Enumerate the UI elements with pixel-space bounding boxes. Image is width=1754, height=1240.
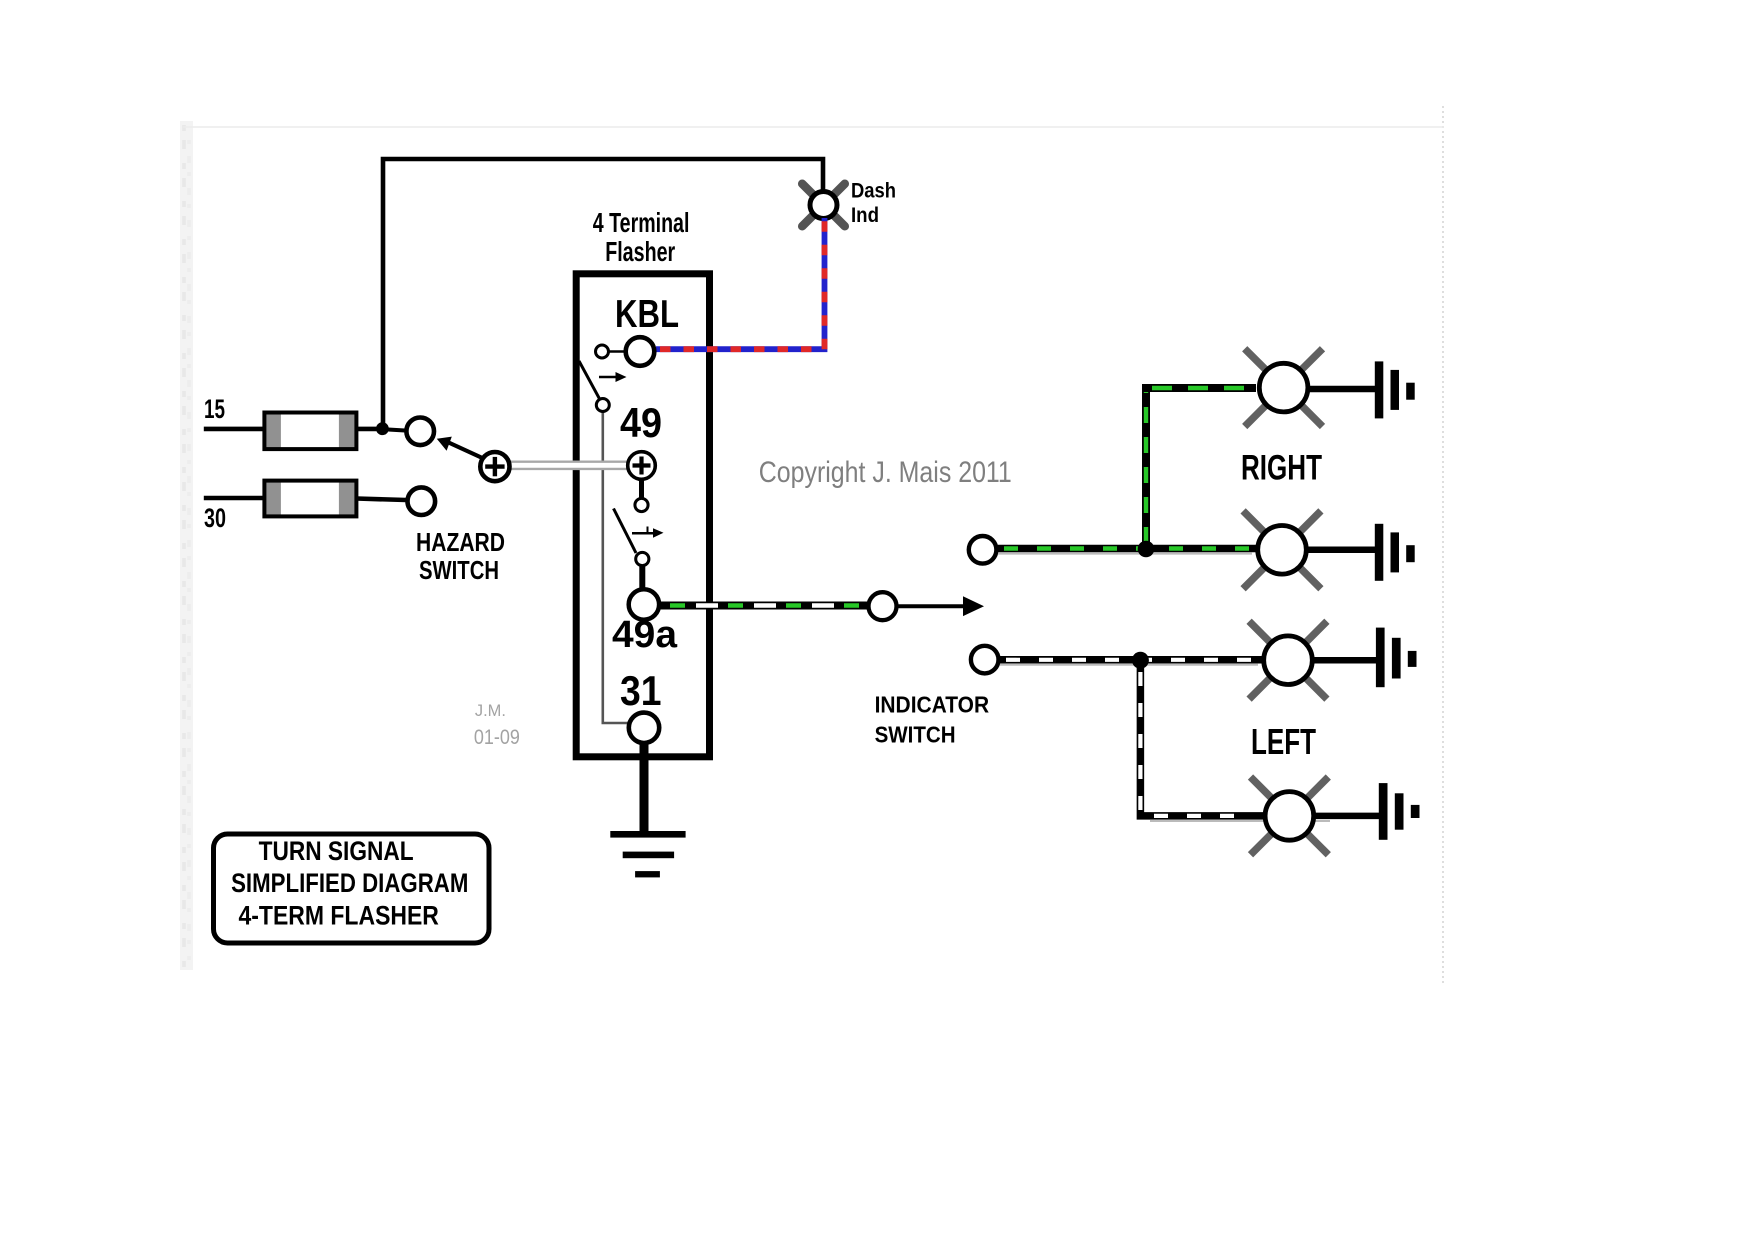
svg-text:LEFT: LEFT [1251, 721, 1316, 762]
svg-text:SWITCH: SWITCH [419, 555, 499, 585]
svg-text:49a: 49a [612, 614, 678, 656]
svg-text:INDICATOR: INDICATOR [875, 691, 990, 717]
svg-text:01-09: 01-09 [474, 725, 520, 749]
hazard switch moving contact circled plus [480, 452, 509, 481]
wire fuse to contact [356, 499, 406, 501]
scan edge texture strip [180, 121, 193, 970]
svg-text:49: 49 [620, 399, 662, 446]
lamp right top [1245, 349, 1323, 427]
svg-text:15: 15 [204, 394, 225, 424]
indicator switch arrow [897, 604, 963, 608]
title box [214, 834, 490, 943]
fuse F2 [264, 481, 356, 517]
hazard switch fixed contact (top) [406, 418, 434, 446]
hazard switch arm with arrow [448, 442, 491, 462]
faint page border top [183, 126, 1444, 128]
relay switch contact (upper) [596, 345, 609, 358]
wire 31 to ground [640, 742, 649, 834]
wire 15 [204, 427, 265, 432]
lamp right bottom [1243, 511, 1321, 589]
wire 49a to indicator switch (black w/ green+white dashes) [659, 602, 868, 610]
svg-text:Dash: Dash [851, 180, 896, 203]
terminal 31 [629, 713, 659, 743]
terminal 49 circled plus [628, 452, 656, 480]
svg-text:4 Terminal: 4 Terminal [593, 207, 690, 238]
node right feed [969, 536, 997, 564]
ground [610, 831, 685, 877]
svg-text:HAZARD: HAZARD [416, 527, 505, 557]
wire KBL to dash ind (blue/red striped) [656, 218, 825, 349]
junction node [376, 422, 389, 435]
ground right top [1375, 361, 1415, 418]
svg-text:30: 30 [204, 503, 226, 533]
wire left vertical+bottom [1140, 660, 1263, 816]
wire right vertical+top [1146, 388, 1256, 552]
svg-text:J.M.: J.M. [475, 702, 506, 720]
lamp left top [1249, 621, 1327, 699]
wire fuse to junction [356, 427, 382, 432]
wire lamp to ground [1306, 386, 1376, 393]
wire junction to hazard switch [388, 430, 405, 431]
indicator switch contact [869, 592, 897, 620]
junction node right [1138, 541, 1155, 558]
terminal KBL [608, 350, 626, 353]
flasher box [576, 274, 709, 757]
svg-text:TURN SIGNAL: TURN SIGNAL [259, 836, 414, 866]
lamp dash indicator [802, 184, 845, 227]
node left feed [971, 646, 999, 674]
svg-text:4-TERM FLASHER: 4-TERM FLASHER [239, 901, 439, 931]
faint page border dotted right [1442, 106, 1444, 985]
ground left bottom [1379, 783, 1420, 840]
svg-text:RIGHT: RIGHT [1241, 449, 1322, 488]
fuse F1 [264, 413, 356, 450]
wire 30 [204, 496, 265, 501]
svg-text:31: 31 [620, 667, 662, 714]
svg-text:Copyright J. Mais 2011: Copyright J. Mais 2011 [759, 456, 1012, 489]
lamp left bottom [1251, 777, 1329, 855]
svg-text:SWITCH: SWITCH [875, 721, 956, 747]
junction node left [1132, 652, 1149, 669]
svg-text:Flasher: Flasher [605, 236, 675, 267]
svg-text:SIMPLIFIED DIAGRAM: SIMPLIFIED DIAGRAM [231, 868, 468, 898]
svg-text:Ind: Ind [851, 204, 879, 227]
svg-text:KBL: KBL [615, 293, 679, 336]
internal gray wire from relay contact to 31 [603, 412, 628, 723]
relay switch (lower) [639, 480, 644, 499]
ground left top [1376, 628, 1417, 688]
hazard switch fixed contact (bottom) [408, 487, 436, 515]
wire right feed (black w/ green dashes) [998, 553, 1252, 555]
wire left feed (black w/ white dashes) [1000, 664, 1258, 666]
wire hazard to 49 (white with gray casing) [506, 460, 630, 470]
wire top loop from hazard junction to dash ind [383, 159, 823, 429]
ground right bottom [1375, 524, 1415, 581]
terminal 49a [629, 589, 659, 619]
